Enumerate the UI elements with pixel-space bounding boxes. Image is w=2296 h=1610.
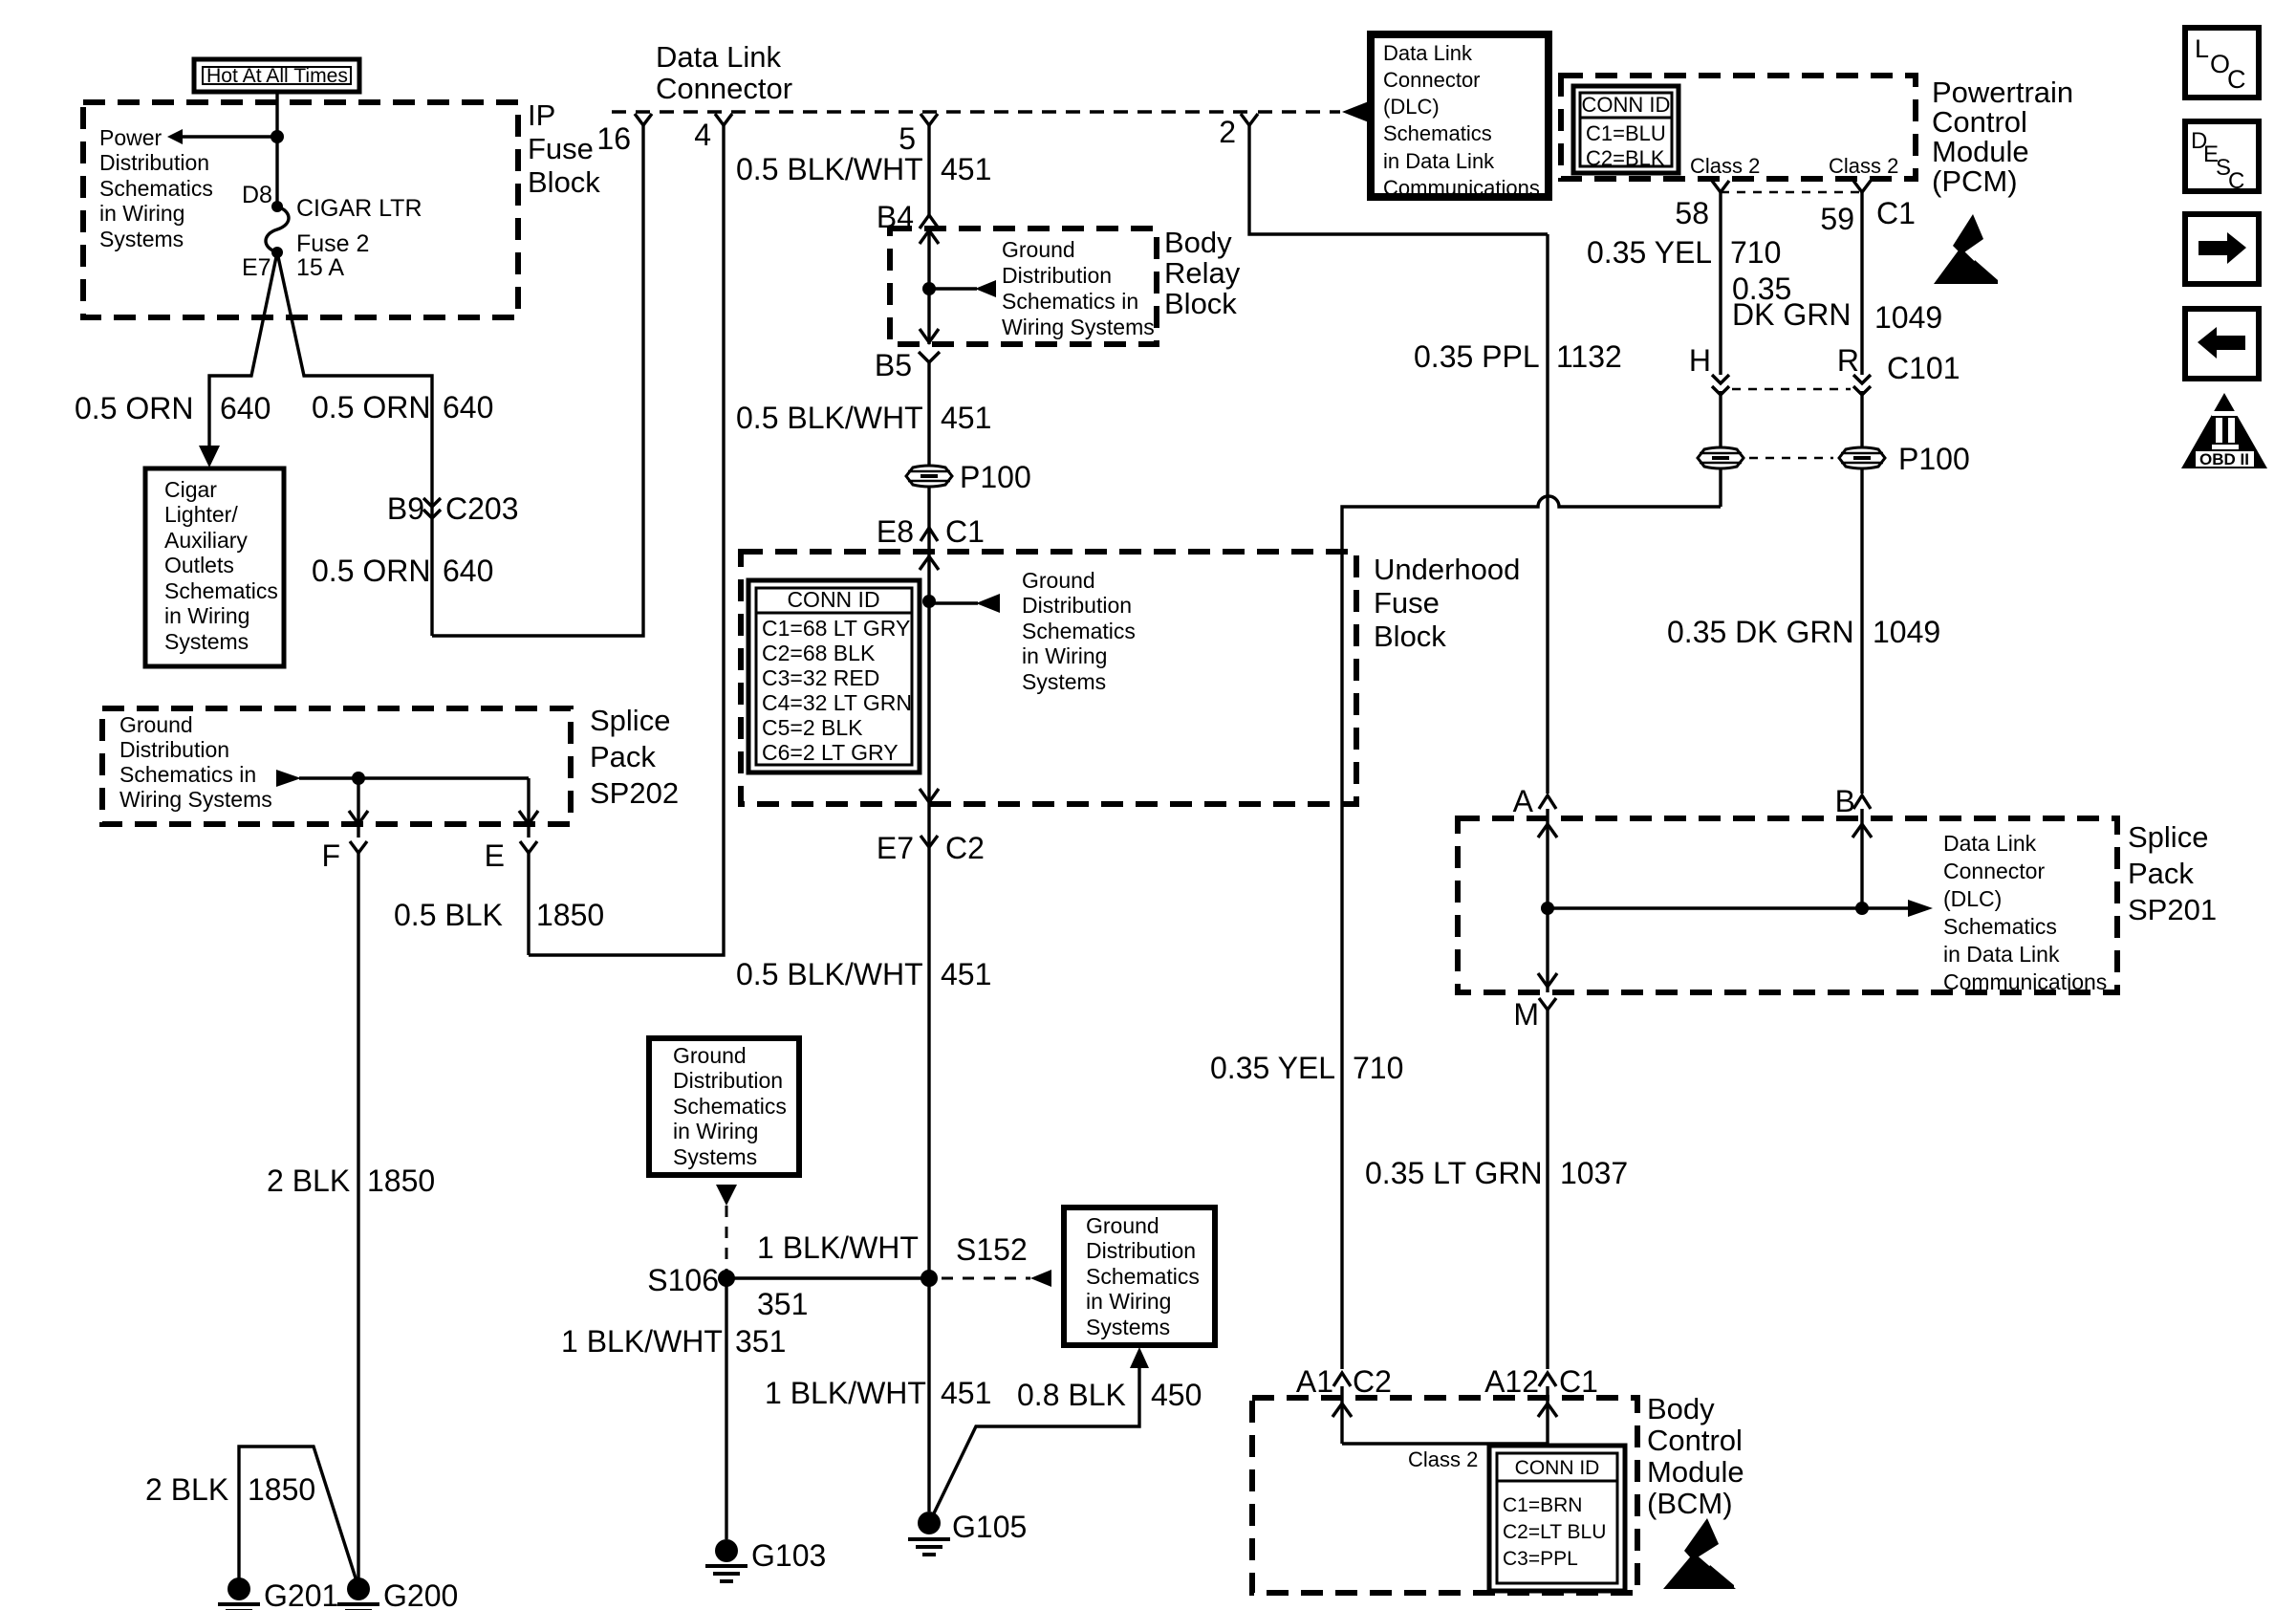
svg-text:S106: S106 xyxy=(647,1263,719,1297)
svg-text:Pack: Pack xyxy=(590,740,656,773)
svg-text:Pack: Pack xyxy=(2128,857,2194,890)
svg-text:in Data Link: in Data Link xyxy=(1943,942,2060,967)
svg-text:710: 710 xyxy=(1353,1051,1403,1085)
wire B5 down to ground G105 xyxy=(927,362,930,1512)
node S152 xyxy=(921,1232,1028,1287)
svg-text:L: L xyxy=(2195,34,2209,63)
svg-text:SP201: SP201 xyxy=(2128,893,2217,926)
svg-text:0.8 BLK: 0.8 BLK xyxy=(1017,1378,1126,1412)
svg-text:M: M xyxy=(1513,997,1539,1032)
wire: DLC pin 5 down to B4 xyxy=(927,125,930,215)
wire BCM A1 leg with arrow xyxy=(1332,1386,1352,1444)
wire: PCM pin 59 xyxy=(1860,192,1863,375)
svg-text:Block: Block xyxy=(1374,620,1446,653)
wire SP202 E leg xyxy=(519,778,538,838)
svg-text:0.35 DK GRN: 0.35 DK GRN xyxy=(1667,615,1854,649)
svg-text:Fuse 2: Fuse 2 xyxy=(296,230,369,257)
Data Link Connector (DLC) Schematics reference box xyxy=(1371,34,1549,200)
connector pin B of SP201 xyxy=(1835,784,1871,818)
svg-text:5: 5 xyxy=(899,121,916,156)
ESD symbol (PCM) xyxy=(1934,214,1998,284)
connector pin F of SP202 xyxy=(321,838,367,873)
svg-text:C1=BLU: C1=BLU xyxy=(1586,121,1666,145)
svg-text:in Wiring: in Wiring xyxy=(673,1119,758,1143)
legend LOC box xyxy=(2185,28,2259,98)
svg-text:in Wiring: in Wiring xyxy=(1086,1289,1171,1314)
arrows on wire through Underhood Fuse Block xyxy=(920,556,939,802)
wire: 0.35 PPL 1132 down to SP201 pin A xyxy=(1546,234,1549,794)
ground G200 xyxy=(337,1577,458,1610)
dashed connector face line between pins 58 and 59 xyxy=(1721,191,1862,194)
svg-text:C: C xyxy=(2227,65,2246,94)
svg-text:Ground: Ground xyxy=(673,1043,747,1068)
wire label 0.35 DK GRN 1049 (stacked) xyxy=(1732,272,1942,335)
svg-text:Schematics: Schematics xyxy=(164,578,278,603)
svg-text:Body: Body xyxy=(1647,1392,1715,1425)
svg-text:C6=2 LT GRY: C6=2 LT GRY xyxy=(762,740,899,765)
svg-text:Block: Block xyxy=(1164,287,1237,320)
svg-text:F: F xyxy=(321,838,340,873)
svg-text:C2=68 BLK: C2=68 BLK xyxy=(762,641,876,665)
DLC pin 5 xyxy=(899,114,938,156)
Power Distribution Schematics in Wiring Systems reference text xyxy=(99,125,213,251)
svg-text:Systems: Systems xyxy=(99,227,184,251)
connector B5 below Body Relay Block xyxy=(875,348,940,382)
svg-text:C1: C1 xyxy=(1559,1364,1598,1399)
svg-text:Communications: Communications xyxy=(1383,176,1540,200)
node: SP201 splice junction B xyxy=(1855,902,1869,915)
svg-text:0.5 ORN: 0.5 ORN xyxy=(312,390,430,424)
dashed arrow from S152 to Ground Distribution box xyxy=(942,1270,1051,1287)
svg-text:Schematics: Schematics xyxy=(99,176,213,201)
wire label 0.35 DK GRN 1049 (lower) xyxy=(1667,615,1940,649)
wire: DLC pin 4 down to splice pack ground feed xyxy=(529,125,724,955)
wire label 0.35 YEL 710 (BCM feed) xyxy=(1210,1051,1403,1085)
svg-text:B5: B5 xyxy=(875,348,912,382)
svg-text:CONN ID: CONN ID xyxy=(1515,1457,1600,1479)
svg-text:451: 451 xyxy=(941,152,991,186)
svg-text:D8: D8 xyxy=(242,182,272,208)
wire label 0.5 ORN 640 (left branch) xyxy=(75,391,271,425)
svg-text:1037: 1037 xyxy=(1560,1156,1628,1190)
arrow from 0.8 BLK wire up into Ground Distribution box xyxy=(1130,1347,1149,1368)
BCM internal bus wire xyxy=(1342,1442,1548,1445)
svg-text:351: 351 xyxy=(735,1324,786,1359)
svg-text:A1: A1 xyxy=(1296,1364,1333,1399)
svg-text:Splice: Splice xyxy=(2128,820,2208,854)
svg-text:(BCM): (BCM) xyxy=(1647,1487,1733,1520)
svg-text:1132: 1132 xyxy=(1556,339,1622,374)
svg-text:1850: 1850 xyxy=(248,1472,315,1507)
wire label 0.5 BLK/WHT 451 (below E7) xyxy=(736,957,991,991)
PCM pin 58 xyxy=(1675,181,1729,230)
svg-text:in Wiring: in Wiring xyxy=(99,201,184,226)
DLC pin 4 xyxy=(694,114,732,152)
legend forward arrow box xyxy=(2185,214,2259,284)
svg-text:Schematics: Schematics xyxy=(673,1094,787,1119)
svg-text:Data Link: Data Link xyxy=(1383,41,1473,65)
wire: H leg down to P100 xyxy=(1719,391,1722,507)
wire: fuse output left branch to cigar lighter xyxy=(199,252,277,468)
svg-text:451: 451 xyxy=(941,957,991,991)
wire label 2 BLK 1850 (G201 branch) xyxy=(145,1472,315,1507)
svg-text:C2=BLK: C2=BLK xyxy=(1586,146,1665,170)
svg-text:Distribution: Distribution xyxy=(1002,263,1112,288)
svg-text:Powertrain: Powertrain xyxy=(1932,76,2073,109)
svg-text:0.5 ORN: 0.5 ORN xyxy=(312,554,430,588)
svg-text:1049: 1049 xyxy=(1874,300,1942,335)
wire: corner from B9 branch over to DLC pin 16 xyxy=(432,125,643,636)
connector B4 into Body Relay Block xyxy=(877,200,939,234)
svg-text:Ground: Ground xyxy=(1086,1213,1159,1238)
svg-text:C3=PPL: C3=PPL xyxy=(1503,1548,1578,1570)
svg-text:C1=68 LT GRY: C1=68 LT GRY xyxy=(762,616,910,641)
svg-text:S152: S152 xyxy=(956,1232,1028,1267)
wire branch to ground G201 xyxy=(239,1447,358,1589)
wire through Body Relay Block xyxy=(920,228,939,344)
svg-text:0.5 ORN: 0.5 ORN xyxy=(75,391,193,425)
wire: YEL from P100 left over to BCM drop (with hop) xyxy=(1342,496,1721,1369)
svg-text:C1: C1 xyxy=(945,514,985,549)
svg-text:1 BLK/WHT: 1 BLK/WHT xyxy=(765,1376,926,1410)
Splice Pack SP201 dashed box xyxy=(1458,818,2217,992)
svg-text:640: 640 xyxy=(443,390,493,424)
wire S106 down to G103 xyxy=(725,1278,727,1539)
svg-text:C: C xyxy=(2228,168,2244,194)
wire S106 to S152 xyxy=(726,1276,929,1279)
svg-text:351: 351 xyxy=(757,1287,808,1321)
wire SP201 M leg with arrow xyxy=(1538,908,1557,992)
svg-text:Module: Module xyxy=(1932,135,2029,168)
svg-text:1850: 1850 xyxy=(536,898,604,932)
svg-text:0.35 PPL: 0.35 PPL xyxy=(1414,339,1540,374)
svg-text:2: 2 xyxy=(1219,115,1236,149)
Data Link Connector title xyxy=(656,40,792,105)
node: power distribution tap junction xyxy=(271,130,284,143)
svg-text:0.5 BLK/WHT: 0.5 BLK/WHT xyxy=(736,957,923,991)
svg-text:Auxiliary: Auxiliary xyxy=(164,528,248,553)
svg-text:C1: C1 xyxy=(1876,196,1916,230)
Hot At All Times power label box xyxy=(194,59,359,92)
Powertrain Control Module dashed box xyxy=(1561,76,2073,198)
connector pin M of SP201 xyxy=(1513,997,1556,1032)
svg-text:C2: C2 xyxy=(1353,1364,1392,1399)
svg-text:E7: E7 xyxy=(242,254,271,281)
Ground Distribution Schematics box (above S106) xyxy=(649,1038,799,1175)
svg-text:B: B xyxy=(1835,784,1855,818)
svg-text:E7: E7 xyxy=(877,831,914,865)
svg-text:Body: Body xyxy=(1164,226,1232,259)
svg-text:G200: G200 xyxy=(383,1578,458,1610)
svg-text:R: R xyxy=(1837,343,1859,378)
svg-text:Schematics: Schematics xyxy=(1022,619,1136,643)
svg-text:58: 58 xyxy=(1675,196,1709,230)
connector C101 pin R xyxy=(1837,343,1960,395)
wire: DLC pin 2 over to PPL drop xyxy=(1249,125,1548,234)
wire: F leg down to ground G200 xyxy=(357,853,359,1589)
Data Link Connector (DLC) Schematics reference text (SP201) xyxy=(1943,831,2107,994)
svg-text:IP: IP xyxy=(528,98,555,132)
svg-text:(PCM): (PCM) xyxy=(1932,164,2018,198)
wire: PCM pin 58 Class 2 serial data xyxy=(1719,192,1722,375)
svg-text:0.35 YEL: 0.35 YEL xyxy=(1210,1051,1335,1085)
svg-text:B9: B9 xyxy=(387,491,424,526)
DLC pin 16 xyxy=(596,114,652,156)
svg-text:E8: E8 xyxy=(877,514,914,549)
svg-text:1 BLK/WHT: 1 BLK/WHT xyxy=(757,1230,919,1265)
wire SP201 B leg with arrow xyxy=(1852,809,1872,908)
node: SP202 splice junction xyxy=(352,772,365,785)
svg-text:Block: Block xyxy=(528,165,600,199)
wire label 0.5 BLK 1850 (E leg) xyxy=(394,898,604,932)
svg-text:(DLC): (DLC) xyxy=(1943,886,2002,911)
svg-text:Ground: Ground xyxy=(1002,237,1075,262)
ground G105 xyxy=(908,1510,1027,1555)
svg-text:Hot At All Times: Hot At All Times xyxy=(206,65,348,87)
svg-text:Underhood: Underhood xyxy=(1374,553,1520,586)
svg-text:G201: G201 xyxy=(264,1578,338,1610)
svg-text:C203: C203 xyxy=(445,491,519,526)
grommet P100 (DLC ground wire) xyxy=(906,460,1031,494)
connector C101 pin H xyxy=(1689,343,1729,395)
svg-text:G105: G105 xyxy=(952,1510,1027,1544)
svg-text:Lighter/: Lighter/ xyxy=(164,502,238,527)
CONN ID table (PCM) xyxy=(1573,86,1679,173)
svg-text:Distribution: Distribution xyxy=(119,737,229,762)
connector pin A of SP201 xyxy=(1513,784,1556,818)
wire label 1 BLK/WHT 351 (S106-S152) xyxy=(757,1230,919,1321)
Cigar Lighter reference box xyxy=(145,468,284,666)
connector C2 pin E7 below Underhood Fuse Block xyxy=(877,831,985,865)
svg-text:Ground: Ground xyxy=(119,712,193,737)
node: SP201 splice junction A xyxy=(1541,902,1554,915)
svg-text:(DLC): (DLC) xyxy=(1383,95,1440,119)
svg-text:Class 2: Class 2 xyxy=(1408,1447,1478,1471)
svg-text:0.5 BLK/WHT: 0.5 BLK/WHT xyxy=(736,152,923,186)
svg-text:C2=LT BLU: C2=LT BLU xyxy=(1503,1521,1606,1543)
svg-text:C1=BRN: C1=BRN xyxy=(1503,1494,1582,1516)
node: Underhood ground tap xyxy=(922,595,936,608)
arrow to Ground Distribution reference (Underhood) xyxy=(929,594,1000,613)
svg-text:Distribution: Distribution xyxy=(673,1068,783,1093)
svg-text:A12: A12 xyxy=(1484,1364,1539,1399)
svg-text:1 BLK/WHT: 1 BLK/WHT xyxy=(561,1324,723,1359)
svg-text:1850: 1850 xyxy=(367,1164,435,1198)
wire label 0.5 BLK/WHT 451 (below B5) xyxy=(736,401,991,435)
ground G103 xyxy=(705,1538,826,1581)
connector C203 pin B9 inline connector xyxy=(387,491,519,526)
svg-text:Distribution: Distribution xyxy=(1086,1238,1196,1263)
svg-text:Fuse: Fuse xyxy=(1374,586,1440,620)
svg-text:0.5 BLK: 0.5 BLK xyxy=(394,898,503,932)
fuse F2 CIGAR LTR 15A xyxy=(242,182,422,281)
svg-text:Distribution: Distribution xyxy=(1022,593,1132,618)
svg-text:E: E xyxy=(485,838,505,873)
svg-text:Fuse: Fuse xyxy=(528,132,594,165)
CONN ID table (BCM) xyxy=(1489,1446,1625,1591)
IP Fuse Block dashed box xyxy=(83,98,600,317)
svg-text:Class 2: Class 2 xyxy=(1829,154,1898,178)
svg-text:C4=32 LT GRN: C4=32 LT GRN xyxy=(762,690,912,715)
svg-text:1049: 1049 xyxy=(1873,615,1940,649)
grommet P100 (left) xyxy=(1698,447,1744,468)
svg-text:CIGAR LTR: CIGAR LTR xyxy=(296,195,422,222)
wire BCM A12 leg with arrow xyxy=(1538,1386,1557,1444)
svg-text:Control: Control xyxy=(1647,1424,1743,1457)
Ground Distribution Schematics box (right of S152) xyxy=(1064,1207,1215,1345)
svg-text:451: 451 xyxy=(941,1376,991,1410)
svg-text:640: 640 xyxy=(443,554,493,588)
svg-text:C2: C2 xyxy=(945,831,985,865)
svg-text:Communications: Communications xyxy=(1943,969,2107,994)
grommet P100 (right) xyxy=(1839,442,1970,476)
svg-text:Systems: Systems xyxy=(1086,1315,1170,1339)
svg-text:Data Link: Data Link xyxy=(1943,831,2037,856)
wire: fuse output right branch down to B9 xyxy=(277,252,432,636)
svg-text:CONN ID: CONN ID xyxy=(787,587,879,612)
Ground Distribution Schematics in Wiring Systems text (Underhood) xyxy=(1022,568,1136,694)
CONN ID table (Underhood Fuse Block) xyxy=(748,580,920,772)
svg-text:Schematics in: Schematics in xyxy=(119,762,256,787)
ground G201 xyxy=(218,1577,338,1610)
svg-text:Cigar: Cigar xyxy=(164,477,217,502)
svg-text:C3=32 RED: C3=32 RED xyxy=(762,665,879,690)
legend DESC box xyxy=(2185,121,2259,194)
Body Control Module dashed box xyxy=(1252,1392,1744,1593)
svg-text:4: 4 xyxy=(694,118,711,152)
svg-text:0.35 YEL: 0.35 YEL xyxy=(1587,235,1712,270)
arrow from Ground Distribution reference into SP202 xyxy=(276,770,529,787)
wire to Power Distribution reference arrow xyxy=(167,129,277,144)
svg-text:Connector: Connector xyxy=(656,72,792,105)
svg-text:in Wiring: in Wiring xyxy=(164,603,249,628)
svg-text:710: 710 xyxy=(1730,235,1781,270)
svg-text:Class 2: Class 2 xyxy=(1690,154,1760,178)
svg-text:0.5 BLK/WHT: 0.5 BLK/WHT xyxy=(736,401,923,435)
wire label 1 BLK/WHT 351 (S106-G103) xyxy=(561,1324,786,1359)
arrow to Ground Distribution reference (Body Relay Block) xyxy=(929,280,996,297)
DLC pin 2 xyxy=(1219,114,1258,149)
svg-text:P100: P100 xyxy=(1898,442,1970,476)
wire from Hot At All Times into fuse block xyxy=(275,92,278,207)
wire SP202 F leg xyxy=(349,778,368,838)
svg-text:Power: Power xyxy=(99,125,162,150)
wire label 0.5 BLK/WHT 451 (pin 5) xyxy=(736,152,991,186)
connector C2 pin A1 into BCM xyxy=(1296,1364,1392,1399)
svg-text:Outlets: Outlets xyxy=(164,553,234,577)
svg-text:SP202: SP202 xyxy=(590,776,679,810)
dashed line between P100 grommets xyxy=(1749,457,1833,460)
svg-text:Distribution: Distribution xyxy=(99,150,209,175)
node S106 xyxy=(647,1263,735,1297)
connector C1 pin E8 into Underhood Fuse Block xyxy=(877,514,985,549)
wire label 0.8 BLK 450 xyxy=(1017,1378,1202,1412)
Data Link Connector dashed connector line xyxy=(612,110,1249,114)
svg-text:16: 16 xyxy=(596,121,631,156)
svg-text:59: 59 xyxy=(1820,202,1854,236)
svg-text:450: 450 xyxy=(1151,1378,1202,1412)
wire: E leg down and over to DLC pin 4 feed xyxy=(527,853,530,955)
svg-text:451: 451 xyxy=(941,401,991,435)
svg-text:in Data Link: in Data Link xyxy=(1383,149,1495,173)
wire 0.8 BLK 450 from G105 to Ground Distribution box xyxy=(933,1368,1139,1515)
node: Body Relay Block ground tap xyxy=(922,282,936,295)
Body Relay Block dashed box xyxy=(890,226,1241,344)
svg-text:C5=2 BLK: C5=2 BLK xyxy=(762,715,863,740)
svg-text:0.35 LT GRN: 0.35 LT GRN xyxy=(1365,1156,1543,1190)
svg-text:2 BLK: 2 BLK xyxy=(145,1472,228,1507)
svg-text:Connector: Connector xyxy=(1383,68,1481,92)
svg-text:A: A xyxy=(1513,784,1534,818)
svg-text:C101: C101 xyxy=(1887,351,1960,385)
svg-text:OBD II: OBD II xyxy=(2199,450,2249,468)
wire label 0.35 YEL 710 (PCM) xyxy=(1587,235,1781,270)
wire label 1 BLK/WHT 451 (above G105) xyxy=(765,1376,991,1410)
svg-text:15 A: 15 A xyxy=(296,254,344,281)
Ground Distribution Schematics reference text (SP202) xyxy=(119,712,272,812)
ESD symbol (BCM) xyxy=(1663,1518,1736,1589)
dashed connector face line C101 xyxy=(1732,388,1851,391)
dashed arrow from Ground Distribution box down to S106 xyxy=(716,1185,737,1272)
Underhood Fuse Block dashed box xyxy=(741,552,1520,804)
svg-text:Control: Control xyxy=(1932,105,2027,139)
svg-text:Data Link: Data Link xyxy=(656,40,781,74)
wire label 0.35 LT GRN 1037 xyxy=(1365,1156,1628,1190)
wire label 0.35 PPL 1132 xyxy=(1414,339,1622,374)
svg-text:Splice: Splice xyxy=(590,704,670,737)
legend back arrow box xyxy=(2185,309,2259,379)
PCM pin 59 xyxy=(1820,181,1871,236)
wire label 0.5 ORN 640 (below C203) xyxy=(312,554,493,588)
svg-text:Ground: Ground xyxy=(1022,568,1095,593)
connector pin E of SP202 xyxy=(485,838,537,873)
splice bus and arrow to DLC schematics reference xyxy=(1548,900,1933,917)
legend OBD II triangle xyxy=(2181,393,2267,468)
svg-text:P100: P100 xyxy=(960,460,1031,494)
svg-text:Schematics: Schematics xyxy=(1383,121,1492,145)
svg-text:in Wiring: in Wiring xyxy=(1022,643,1107,668)
svg-text:Relay: Relay xyxy=(1164,256,1241,290)
svg-text:CONN ID: CONN ID xyxy=(1582,93,1671,117)
svg-text:Schematics: Schematics xyxy=(1086,1264,1200,1289)
svg-text:Connector: Connector xyxy=(1943,859,2045,883)
Ground Distribution Schematics in Wiring Systems text (Body Relay Block) xyxy=(1002,237,1155,339)
wire label 0.5 ORN 640 (right branch) xyxy=(312,390,493,424)
svg-text:G103: G103 xyxy=(751,1538,826,1573)
wire: R leg down through P100 xyxy=(1860,391,1863,794)
wire: M leg down to BCM A12 xyxy=(1546,1010,1549,1369)
svg-text:Systems: Systems xyxy=(1022,669,1106,694)
svg-text:Systems: Systems xyxy=(164,629,249,654)
svg-text:Schematics in: Schematics in xyxy=(1002,289,1138,314)
svg-text:DK GRN: DK GRN xyxy=(1732,297,1851,332)
svg-text:Systems: Systems xyxy=(673,1144,757,1169)
svg-text:Wiring Systems: Wiring Systems xyxy=(119,787,272,812)
dashed reference link from DLC to Data Link Communications box xyxy=(1258,101,1369,122)
svg-text:Wiring Systems: Wiring Systems xyxy=(1002,315,1155,339)
svg-text:640: 640 xyxy=(220,391,271,425)
connector C1 pin A12 into BCM xyxy=(1484,1364,1598,1399)
wire SP201 A leg with arrow xyxy=(1538,809,1557,908)
svg-text:Module: Module xyxy=(1647,1455,1744,1489)
svg-text:H: H xyxy=(1689,343,1711,378)
Splice Pack SP202 dashed box xyxy=(102,704,679,824)
svg-text:2 BLK: 2 BLK xyxy=(267,1164,350,1198)
wire label 2 BLK 1850 (F leg) xyxy=(267,1164,435,1198)
svg-text:Schematics: Schematics xyxy=(1943,914,2057,939)
